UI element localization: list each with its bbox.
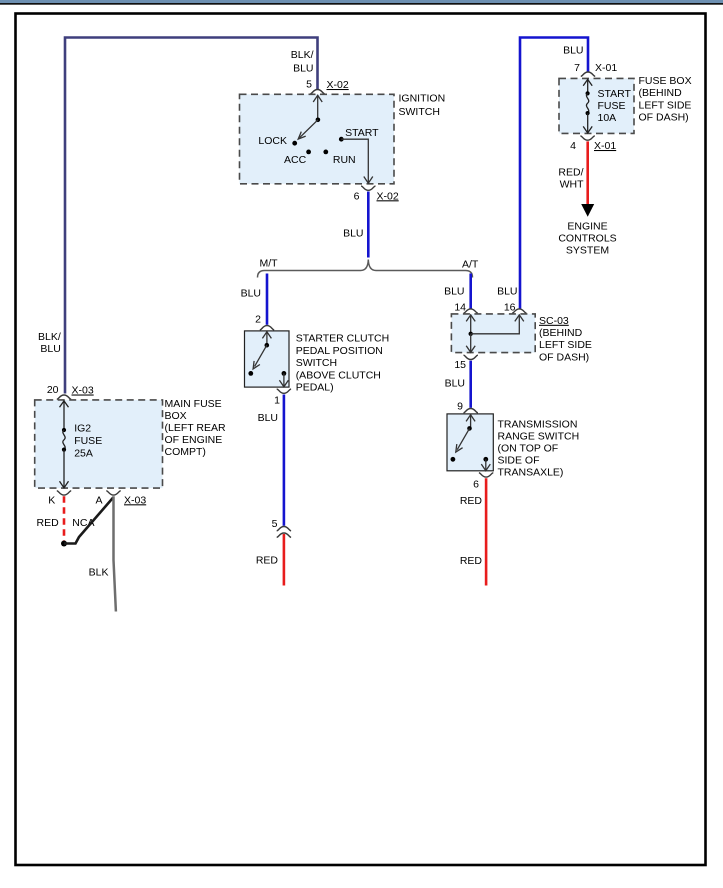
svg-text:BLU: BLU [497,286,517,298]
connector arch pin 15 [464,355,478,359]
svg-text:6: 6 [354,190,360,202]
contact dot LOCK [292,141,297,146]
svg-text:FUSE: FUSE [74,435,102,447]
svg-text:RUN: RUN [333,154,356,166]
svg-text:BLU: BLU [258,412,278,424]
svg-text:BLU: BLU [293,63,313,75]
wire W10 RED TRS pin 6 down to brace [485,478,488,585]
svg-text:RED: RED [460,495,483,507]
svg-text:10A: 10A [598,112,617,124]
svg-text:RED: RED [460,555,483,567]
main fuse box (left rear of engine compt) dashed box [35,400,163,488]
svg-text:BLU: BLU [563,45,583,57]
svg-text:(LEFT REAR: (LEFT REAR [165,422,226,434]
svg-text:WHT: WHT [560,178,584,190]
svg-text:14: 14 [454,302,466,314]
svg-text:BLK/: BLK/ [291,49,314,61]
svg-text:(BEHIND: (BEHIND [639,87,683,99]
svg-text:A/T: A/T [462,259,479,271]
svg-text:SC-03: SC-03 [539,315,569,327]
TRS pin 9 arrow [470,415,472,429]
wire START contact to pin 6 with arrow [341,139,368,182]
SC-03 internal wire to pin 16 with arrow [471,315,520,334]
svg-text:BLK/: BLK/ [38,331,61,343]
ignition rotor pivot dot [316,118,321,123]
connector arch pin 14 [464,309,478,313]
svg-text:OF DASH): OF DASH) [539,351,589,363]
START FUSE 10A fuse F1 [587,79,589,93]
SC-03 pin 14 arrow [470,315,472,334]
IG2 FUSE 25A fuse F2 [63,401,65,430]
svg-text:OF DASH): OF DASH) [639,112,689,124]
svg-text:SWITCH: SWITCH [296,357,337,369]
connector arch pin 6 X-02 [361,186,375,190]
svg-text:X-02: X-02 [377,190,399,202]
svg-text:PEDAL): PEDAL) [296,382,334,394]
svg-text:TRANSMISSION: TRANSMISSION [498,419,578,431]
fuse box (behind left side of dash) dashed box [559,78,634,133]
svg-text:CONTROLS: CONTROLS [558,232,616,244]
connector arch pin 7 X-01 [581,72,595,76]
svg-text:LEFT SIDE: LEFT SIDE [539,339,592,351]
svg-text:X-01: X-01 [594,140,616,152]
svg-text:K: K [48,494,55,506]
NCA terminal dot [61,541,67,547]
svg-text:LOCK: LOCK [258,135,287,147]
STARTER [0,0,1,1]
svg-text:X-01: X-01 [595,62,617,74]
contact dot RUN [323,150,328,155]
wire W2 BLU from SC-03 pin 16 up, along top, to fuse box pin 7 [520,38,588,310]
svg-text:SIDE OF: SIDE OF [498,455,540,467]
svg-text:MAIN FUSE: MAIN FUSE [165,398,222,410]
svg-text:(BEHIND: (BEHIND [539,327,583,339]
wire W4 RED/WHT from fuse pin 4 down to engine controls arrow [586,141,589,204]
clutch switch pivot dot [265,343,270,348]
svg-text:BLU: BLU [241,288,261,300]
TRS contact dot left [451,457,456,462]
wire W11 RED (NCA) dashed from pin K down [63,496,66,540]
svg-text:START: START [345,127,379,139]
connector arch pin K X-03 [57,491,71,495]
svg-text:4: 4 [570,140,576,152]
TRS blade [457,428,469,449]
svg-text:X-02: X-02 [327,79,349,91]
svg-text:SWITCH: SWITCH [399,106,440,118]
svg-text:SYSTEM: SYSTEM [566,244,609,256]
svg-text:M/T: M/T [260,257,279,269]
brace splitting BLU wire into M/T and A/T branches [258,260,473,278]
svg-text:2: 2 [255,314,261,326]
connector arch pin 20 X-03 [57,395,71,399]
contact dot ACC [306,150,311,155]
contact dot START [339,137,344,142]
wire W6 BLU A/T branch down to SC-03 pin 14 [469,274,472,309]
svg-text:7: 7 [574,62,580,74]
wire W1 BLK/BLU from ignition switch pin 5 along top and left side to main fuse box pin 20 [65,38,318,394]
clutch switch pin 2 arrow [266,332,268,346]
connector arch pin 16 [512,309,526,313]
svg-text:IGNITION: IGNITION [399,92,446,104]
svg-text:RED/: RED/ [558,166,583,178]
svg-text:BLU: BLU [444,286,464,298]
svg-text:BLU: BLU [343,227,363,239]
clutch switch contact dot left [248,371,253,376]
wire W9 BLU SC-03 pin 15 down to TRS pin 9 [469,361,472,408]
svg-text:ACC: ACC [284,154,307,166]
wire W12 BLK from pin A down to battery positive [114,496,116,611]
connector SC-03 dashed box [451,314,535,353]
SC-03 junction dot [469,332,473,336]
svg-text:1: 1 [274,394,280,406]
TRS contact dot right [483,457,488,462]
svg-text:START: START [598,88,632,100]
connector arch pin 1 [277,389,291,393]
FOOTER [0,0,1,1]
svg-text:X-03: X-03 [72,385,94,397]
svg-text:RANGE SWITCH: RANGE SWITCH [498,431,580,443]
svg-text:BOX: BOX [165,410,187,422]
TRS pin 6 arrow [485,459,487,470]
connector arch pin 4 X-01 [580,136,594,140]
svg-text:LEFT SIDE: LEFT SIDE [639,99,692,111]
clutch switch contact dot right [282,371,287,376]
wire W7 BLU clutch switch pin 1 down to splice 5 [283,395,286,526]
ignition switch SW1 box [240,94,395,184]
svg-text:PEDAL POSITION: PEDAL POSITION [296,345,383,357]
ignition pin 5 arrow [317,95,319,120]
connector arch pin 9 [464,409,478,413]
svg-text:BLK: BLK [89,566,109,578]
svg-text:BLU: BLU [40,343,60,355]
svg-text:X-03: X-03 [124,494,146,506]
arrow to engine controls system [581,204,594,217]
clutch switch blade [255,345,267,366]
svg-text:5: 5 [306,79,312,91]
svg-text:ENGINE: ENGINE [567,220,607,232]
starter clutch pedal position switch SW2 box [245,331,290,387]
svg-text:IG2: IG2 [74,423,91,435]
svg-text:(ABOVE CLUTCH: (ABOVE CLUTCH [296,369,381,381]
svg-text:FUSE BOX: FUSE BOX [639,75,692,87]
transmission range switch SW3 box [447,414,493,471]
wire W3 BLU ignition pin 6 down to M/T-A/T split [367,192,370,258]
ignition rotor blade toward LOCK [300,120,318,138]
svg-text:25A: 25A [74,447,93,459]
connector arch pin A X-03 [106,491,120,495]
svg-text:20: 20 [47,384,59,396]
svg-text:5: 5 [272,518,278,530]
connector arch pin 5 X-02 [310,90,324,94]
svg-text:FUSE: FUSE [598,100,626,112]
wire W8 RED splice 5 down to brace [283,534,286,586]
svg-text:TRANSAXLE): TRANSAXLE) [498,467,564,479]
BRACE-BOTTOM [0,0,1,1]
inline connector splice 5 lower arch [277,533,291,537]
svg-text:6: 6 [473,478,479,490]
clutch switch pin 1 arrow [283,373,285,386]
svg-text:STARTER CLUTCH: STARTER CLUTCH [296,333,390,345]
SC-03 pin 15 arrow [470,334,472,352]
svg-text:(ON TOP OF: (ON TOP OF [498,443,559,455]
svg-text:RED: RED [37,517,60,529]
wire W5 BLU M/T branch down to clutch switch pin 2 [266,274,269,325]
TRS pivot dot [467,426,472,431]
svg-text:COMPT): COMPT) [165,446,206,458]
svg-text:A: A [95,494,102,506]
BATTERY [0,0,1,1]
svg-text:9: 9 [457,401,463,413]
inline connector splice 5 upper arch [277,527,291,531]
NCA black lead elbow to pin A [64,498,113,544]
svg-text:RED: RED [256,555,279,567]
svg-text:BLU: BLU [445,378,465,390]
svg-text:OF ENGINE: OF ENGINE [165,434,223,446]
connector arch pin 6 TRS [479,473,493,477]
svg-text:15: 15 [454,359,466,371]
connector arch pin 2 [260,326,274,330]
